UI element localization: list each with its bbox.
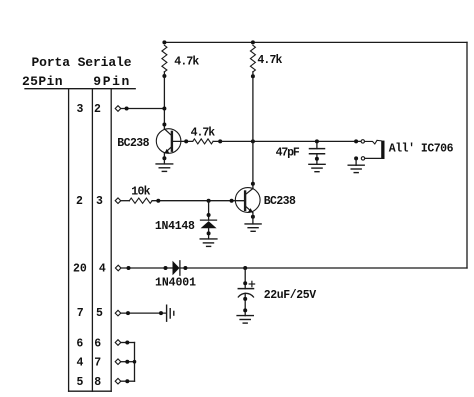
junction dot row4 left xyxy=(126,311,130,315)
svg-text:5: 5 xyxy=(96,307,103,320)
svg-text:4.7k: 4.7k xyxy=(174,55,199,68)
svg-text:3: 3 xyxy=(77,103,84,116)
transistor Q1 collector slant xyxy=(164,129,170,135)
transistor Q2 emitter slant xyxy=(246,207,252,213)
svg-text:3: 3 xyxy=(96,195,103,208)
wire C1 bottom xyxy=(316,154,318,165)
diode D1 1N4148 lead xyxy=(208,201,210,220)
junction dot row6 xyxy=(125,360,129,364)
svg-text:4.7k: 4.7k xyxy=(257,54,282,67)
wire jack sleeve to ground xyxy=(355,158,357,165)
wire R2 to Q2 collector xyxy=(252,72,254,189)
diode D1 triangle xyxy=(201,221,217,228)
pin labels row 2 (2|3) xyxy=(76,195,103,208)
pin connector row2 diamond xyxy=(115,198,121,204)
anode dot D2 xyxy=(164,266,168,270)
pin labels row 7 (5|8) xyxy=(77,376,102,389)
pin connector row5 diamond xyxy=(115,340,121,346)
ground Q2 xyxy=(245,224,261,231)
emitter dot Q1 xyxy=(162,156,166,160)
strap wire rows 5-7 xyxy=(134,343,136,382)
connector table vertical 3 xyxy=(110,89,112,392)
capacitor C2 22uF/25V lead xyxy=(244,268,246,289)
junction dot C1 bottom xyxy=(315,157,319,161)
bottom rail wire xyxy=(180,267,467,269)
junction dot C2 branch xyxy=(243,266,247,270)
top rail wire xyxy=(164,41,467,43)
svg-text:1N4148: 1N4148 xyxy=(155,220,195,233)
svg-text:4: 4 xyxy=(99,263,106,276)
wire D1 to ground xyxy=(208,228,210,239)
wire row2 to 10k xyxy=(121,200,130,202)
svg-text:22uF/25V: 22uF/25V xyxy=(264,289,316,302)
svg-text:47pF: 47pF xyxy=(276,146,300,159)
resistor R3 4.7k (horizontal, Q1 base) xyxy=(193,139,213,144)
svg-text:25Pin: 25Pin xyxy=(22,74,63,89)
junction dot row4 right xyxy=(159,311,163,315)
pin labels row 4 (7|5) xyxy=(77,307,103,320)
plus sign C2 xyxy=(249,281,254,286)
connector table header line xyxy=(25,88,135,90)
pin connector row1 diamond xyxy=(115,106,121,112)
diode D1 cathode bar xyxy=(201,219,217,221)
wire row3 to D2 xyxy=(121,267,173,269)
ground C1 xyxy=(309,164,325,171)
junction dot C1 top xyxy=(315,139,319,143)
junction dot rail-R1 xyxy=(162,40,166,44)
jack J1 body bar xyxy=(381,141,384,159)
junction dot row3 xyxy=(127,266,131,270)
junction dot after R3 xyxy=(218,139,222,143)
plus dot C2 xyxy=(243,281,247,285)
pin labels row 5 (6|6) xyxy=(76,337,101,350)
capacitor C1 plates xyxy=(310,149,325,154)
transistor Q2 base bar xyxy=(244,192,246,210)
junction dot D1 branch xyxy=(207,199,211,203)
wire Q1 base lead xyxy=(173,140,193,142)
svg-text:All' IC706: All' IC706 xyxy=(389,142,454,155)
pin labels row 1 (3|2) xyxy=(77,103,102,116)
right border wire xyxy=(466,42,468,268)
dot C2 bottom xyxy=(243,297,247,301)
wire Q1 emitter to ground xyxy=(163,153,165,164)
junction dot signal-R2 vertical xyxy=(251,139,255,143)
wire row1 to node A xyxy=(121,108,165,110)
pin labels row 3 (20|4) xyxy=(73,263,106,276)
transistor Q1 emitter slant xyxy=(165,148,171,154)
jack tip spring wire xyxy=(365,140,382,144)
svg-text:4.7k: 4.7k xyxy=(191,126,216,139)
junction dot row5 xyxy=(125,341,129,345)
connector table vertical 1 xyxy=(68,89,70,392)
transistor Q1 base bar xyxy=(171,132,173,151)
diode D2 cathode bar xyxy=(179,261,181,275)
base dot Q1 xyxy=(184,139,188,143)
svg-text:20: 20 xyxy=(73,263,87,276)
pin connector row3 diamond xyxy=(115,265,121,271)
diode D2 1N4001 triangle xyxy=(173,261,180,275)
anode dot D1 xyxy=(207,213,211,217)
junction dot row1 xyxy=(125,107,129,111)
base dot Q2 xyxy=(230,199,234,203)
wire row6 xyxy=(121,361,135,363)
svg-text:8: 8 xyxy=(94,376,101,389)
resistor R2 4.7k (vertical) xyxy=(250,45,255,72)
transistor Q1 emitter arrow xyxy=(164,149,169,154)
capacitor C2 curved plate xyxy=(238,293,253,297)
ground Q1 xyxy=(156,164,173,172)
capacitor C2 positive plate xyxy=(238,288,253,290)
ground D1 xyxy=(200,239,217,247)
collector dot Q2 xyxy=(251,182,255,186)
transistor Q1 BC238 circle xyxy=(156,129,181,154)
junction dot node A xyxy=(162,107,166,111)
junction dot below R1 xyxy=(162,74,166,78)
svg-text:10k: 10k xyxy=(131,185,150,198)
collector dot Q1 xyxy=(162,123,166,127)
junction dot strap row6 xyxy=(133,360,137,364)
ground C2 xyxy=(237,316,253,324)
wire C2 to ground xyxy=(244,293,246,315)
ground jack xyxy=(348,165,364,172)
open contact circle jack sleeve xyxy=(361,157,364,160)
jack sleeve wire xyxy=(365,157,382,159)
junction dot below R2 xyxy=(251,74,255,78)
ground row4 (sideways) xyxy=(167,305,174,321)
wire row5 xyxy=(121,342,135,344)
pin connector row6 diamond xyxy=(115,359,121,365)
svg-text:5: 5 xyxy=(77,376,84,389)
wire signal node to jack xyxy=(213,140,361,142)
svg-text:BC238: BC238 xyxy=(117,137,149,150)
svg-text:6: 6 xyxy=(94,337,101,350)
svg-text:6: 6 xyxy=(76,337,83,350)
junction dot jack tip xyxy=(354,139,358,143)
transistor Q2 BC238 circle xyxy=(235,188,260,213)
svg-text:1N4001: 1N4001 xyxy=(155,276,196,289)
svg-text:7: 7 xyxy=(77,307,84,320)
junction dot row7 xyxy=(125,379,129,383)
svg-text:2: 2 xyxy=(94,103,101,116)
capacitor C1 47pF lead xyxy=(316,141,318,148)
resistor R1 4.7k (vertical) xyxy=(162,45,167,72)
connector table vertical 2 xyxy=(91,89,93,392)
dot C2 ground end xyxy=(243,308,247,312)
wire row7 xyxy=(121,380,135,382)
svg-text:2: 2 xyxy=(76,195,83,208)
junction dot jack sleeve xyxy=(354,156,358,160)
svg-text:Porta Seriale: Porta Seriale xyxy=(32,55,132,70)
wire row4 to ground xyxy=(121,312,166,314)
svg-text:4: 4 xyxy=(77,356,84,369)
wire Q2 emitter to ground xyxy=(252,213,254,224)
pin labels row 6 (4|7) xyxy=(77,356,102,369)
transistor Q2 emitter arrow xyxy=(248,208,253,213)
junction dot after 10k xyxy=(156,199,160,203)
cathode dot D2 xyxy=(183,266,187,270)
transistor Q2 collector slant xyxy=(246,189,253,194)
connector table bottom line xyxy=(69,390,112,392)
cathode-side dot D1 xyxy=(207,231,211,235)
resistor R4 10k xyxy=(129,198,152,203)
pin connector row4 diamond xyxy=(115,310,121,316)
emitter dot Q2 xyxy=(251,215,255,219)
svg-text:7: 7 xyxy=(94,356,101,369)
svg-text:BC238: BC238 xyxy=(264,195,296,208)
wire 10k to Q2 base xyxy=(152,200,244,202)
junction dot rail-R2 xyxy=(251,40,255,44)
wire R1 to Q1 collector xyxy=(163,72,165,129)
svg-text:9Pin: 9Pin xyxy=(93,74,129,89)
pin connector row7 diamond xyxy=(115,378,121,384)
open contact circle jack tip xyxy=(361,140,364,143)
